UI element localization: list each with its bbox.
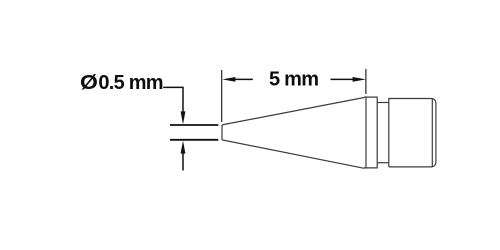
label diameter 0.5mm <box>80 70 98 93</box>
solder tip cone outline <box>222 96 436 168</box>
svg-text:0.5 mm: 0.5 mm <box>98 72 162 94</box>
5mm right extension line <box>365 69 367 94</box>
ring groove bottom <box>377 162 389 164</box>
tip face <box>221 125 223 140</box>
5mm left extension line <box>221 70 223 122</box>
cylinder chamfer line <box>431 99 433 167</box>
leader from diameter label <box>163 87 183 112</box>
svg-text:5 mm: 5 mm <box>269 68 318 90</box>
5mm dim line right segment <box>331 78 354 80</box>
right arrowhead 5mm <box>353 77 366 82</box>
up arrowhead at tip <box>181 141 186 154</box>
down arrowhead at tip <box>181 111 186 124</box>
up arrow shaft <box>182 153 184 171</box>
5mm dim line left segment <box>235 78 253 80</box>
cone top edge <box>222 98 364 125</box>
ferrule band <box>364 96 377 168</box>
dimension graphics <box>163 69 366 171</box>
left arrowhead 5mm <box>222 77 235 82</box>
svg-text:Ø: Ø <box>80 70 98 93</box>
tip extension line bottom <box>170 139 218 141</box>
cylinder body <box>389 99 436 167</box>
tip extension line top <box>170 124 218 126</box>
ring groove top <box>377 102 389 104</box>
cone bottom edge <box>222 140 364 168</box>
